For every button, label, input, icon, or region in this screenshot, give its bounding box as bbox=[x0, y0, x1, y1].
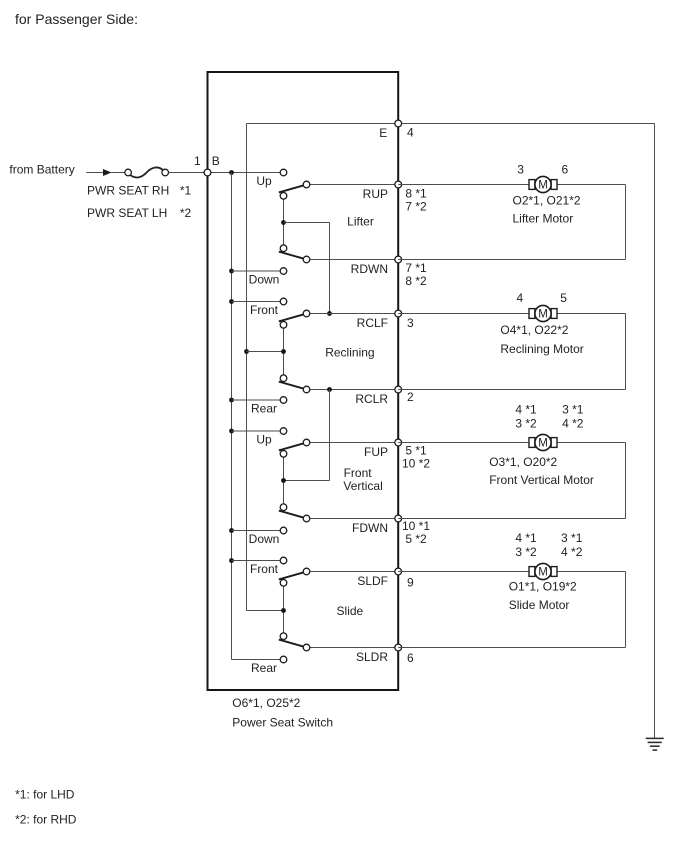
svg-text:for Passenger Side:: for Passenger Side: bbox=[15, 11, 138, 27]
label Reclining Motor bbox=[500, 342, 583, 356]
switch front-vertical lower wire FDWN bbox=[307, 518, 399, 520]
svg-text:4 *2: 4 *2 bbox=[561, 545, 583, 559]
svg-text:7 *1: 7 *1 bbox=[405, 261, 427, 275]
switch front-vertical arm down bbox=[279, 511, 304, 518]
svg-text:4: 4 bbox=[516, 291, 523, 305]
svg-text:Up: Up bbox=[256, 174, 272, 188]
svg-text:4 *1: 4 *1 bbox=[515, 531, 537, 545]
switch lifter arm down bbox=[279, 252, 304, 259]
label 1 (pin) bbox=[194, 154, 201, 168]
wire B bus to Down contact bbox=[232, 270, 284, 272]
svg-text:*2: *2 bbox=[180, 206, 192, 220]
label Slide Motor bbox=[509, 598, 570, 612]
svg-text:FDWN: FDWN bbox=[352, 521, 388, 535]
junction slide common bbox=[281, 608, 286, 613]
svg-text:RCLF: RCLF bbox=[357, 316, 388, 330]
label RUP bbox=[363, 187, 388, 201]
label RCLF bbox=[357, 316, 388, 330]
label from Battery bbox=[9, 162, 74, 176]
svg-text:M: M bbox=[538, 437, 548, 449]
label B (terminal) bbox=[212, 154, 220, 168]
wire E horizontal inside box bbox=[247, 123, 399, 125]
svg-text:Vertical: Vertical bbox=[343, 479, 382, 493]
terminal FDWN bbox=[395, 515, 402, 522]
svg-text:3 *1: 3 *1 bbox=[561, 531, 583, 545]
label Front contact bbox=[250, 562, 279, 576]
wire B bus to Down contact bbox=[232, 530, 284, 532]
wire B bus to Up contact bbox=[232, 430, 284, 432]
svg-text:Rear: Rear bbox=[251, 661, 277, 675]
switch slide common vertical bbox=[283, 583, 285, 636]
label Power Seat Switch bbox=[232, 715, 333, 729]
terminal E bbox=[395, 120, 402, 127]
svg-text:8 *2: 8 *2 bbox=[405, 274, 427, 288]
wire B bus vertical bbox=[231, 173, 233, 660]
svg-text:FUP: FUP bbox=[364, 445, 388, 459]
title for Passenger Side bbox=[15, 11, 138, 27]
svg-text:Down: Down bbox=[249, 532, 280, 546]
junction front-vertical common bbox=[281, 478, 286, 483]
svg-text:Reclining Motor: Reclining Motor bbox=[500, 342, 583, 356]
svg-text:Front: Front bbox=[250, 303, 279, 317]
wire B bus to Front contact bbox=[232, 560, 284, 562]
svg-text:3 *1: 3 *1 bbox=[562, 402, 584, 416]
svg-text:Power Seat Switch: Power Seat Switch bbox=[232, 715, 333, 729]
terminal RCLF bbox=[395, 310, 402, 317]
svg-text:Lifter Motor: Lifter Motor bbox=[513, 212, 574, 226]
wire RCLR to front vertical common bbox=[284, 390, 330, 481]
terminal B bbox=[204, 169, 211, 176]
wire B bus to Front contact bbox=[232, 301, 284, 303]
switch front-vertical arm up bbox=[279, 443, 304, 450]
label FDWN bbox=[352, 521, 388, 535]
switch slide arm rear bbox=[279, 640, 304, 647]
svg-text:10 *1: 10 *1 bbox=[402, 519, 430, 533]
svg-text:*1: for LHD: *1: for LHD bbox=[15, 787, 75, 801]
svg-text:8 *1: 8 *1 bbox=[405, 186, 427, 200]
label E (terminal) bbox=[379, 126, 387, 140]
label SLDR bbox=[356, 650, 388, 664]
pin label 4*2 (slide motor) bbox=[561, 545, 583, 559]
svg-text:4 *2: 4 *2 bbox=[562, 416, 584, 430]
switch lifter upper wire RUP bbox=[307, 184, 399, 186]
label O2*1, O21*2 bbox=[513, 194, 581, 208]
label Front Vertical Motor bbox=[489, 473, 594, 487]
pin label 3 (lifter motor) bbox=[517, 163, 524, 177]
svg-text:O3*1, O20*2: O3*1, O20*2 bbox=[489, 455, 557, 469]
pin label 4*2 (fv motor) bbox=[562, 416, 584, 430]
terminal SLDF bbox=[395, 568, 402, 575]
svg-text:M: M bbox=[538, 179, 548, 191]
svg-text:*2: for RHD: *2: for RHD bbox=[15, 812, 77, 826]
motor M4 slide loop and symbol bbox=[398, 563, 625, 647]
pin label 4 (reclining motor) bbox=[516, 291, 523, 305]
svg-text:10 *2: 10 *2 bbox=[402, 457, 430, 471]
svg-text:Reclining: Reclining bbox=[325, 345, 374, 359]
pin label 4*1 (slide motor) bbox=[515, 531, 537, 545]
footnote *2 for RHD bbox=[15, 812, 77, 826]
label Front contact bbox=[250, 303, 279, 317]
switch lifter common vertical bbox=[283, 196, 285, 248]
svg-text:3 *2: 3 *2 bbox=[515, 416, 537, 430]
label PWR SEAT LH *2 bbox=[87, 206, 192, 220]
motor M3 front vertical loop and symbol bbox=[398, 434, 625, 518]
ground symbol bbox=[646, 738, 664, 750]
svg-text:M: M bbox=[538, 308, 548, 320]
switch pivot contacts on motor wires bbox=[303, 181, 310, 651]
label Down contact bbox=[249, 272, 280, 286]
svg-text:M: M bbox=[538, 566, 548, 578]
junction B bus feed Front bbox=[229, 299, 234, 304]
junction B bus feed Front bbox=[229, 558, 234, 563]
switch arm throw contacts bbox=[280, 193, 287, 640]
svg-text:3: 3 bbox=[407, 316, 414, 330]
junction lifter common bbox=[281, 220, 286, 225]
svg-text:RUP: RUP bbox=[363, 187, 388, 201]
pin label 3*2 (fv motor) bbox=[515, 416, 537, 430]
svg-text:6: 6 bbox=[407, 651, 414, 665]
switch reclining lower wire RCLR bbox=[307, 389, 399, 391]
svg-text:from Battery: from Battery bbox=[9, 162, 74, 176]
svg-text:O4*1, O22*2: O4*1, O22*2 bbox=[500, 323, 568, 337]
terminal SLDR bbox=[395, 644, 402, 651]
wire fuse to terminal B bbox=[169, 172, 208, 174]
svg-text:O6*1, O25*2: O6*1, O25*2 bbox=[232, 696, 300, 710]
label Front Vertical bbox=[343, 466, 382, 493]
label O3*1, O20*2 bbox=[489, 455, 557, 469]
switch slide upper wire SLDF bbox=[307, 571, 399, 573]
footnote *1 for LHD bbox=[15, 787, 75, 801]
junction B bus feed Up bbox=[229, 429, 234, 434]
label Up contact bbox=[256, 174, 272, 188]
wire E outside box to ground bbox=[398, 124, 654, 739]
wire B bus to Rear contact (bottom) bbox=[232, 659, 284, 661]
junction reclining common bbox=[281, 349, 286, 354]
label 4 (pin) bbox=[407, 125, 414, 139]
junction B bus feed Rear bbox=[229, 398, 234, 403]
pin label FDWN 10*1/5*2 bbox=[402, 519, 430, 546]
svg-text:2: 2 bbox=[407, 390, 414, 404]
junction chain on RCLF bbox=[327, 311, 332, 316]
wire from battery with arrow bbox=[86, 169, 125, 176]
label PWR SEAT RH *1 bbox=[87, 184, 192, 198]
junction chain on RCLR bbox=[327, 387, 332, 392]
wire E to slide common bbox=[247, 610, 284, 612]
svg-text:RDWN: RDWN bbox=[351, 262, 388, 276]
label Rear contact bbox=[251, 401, 277, 415]
label RCLR bbox=[355, 392, 388, 406]
switch slide lower wire SLDR bbox=[307, 647, 399, 649]
label O1*1, O19*2 bbox=[509, 580, 577, 594]
svg-text:9: 9 bbox=[407, 575, 414, 589]
svg-text:Up: Up bbox=[256, 432, 272, 446]
svg-text:PWR SEAT LH: PWR SEAT LH bbox=[87, 206, 167, 220]
svg-text:PWR SEAT RH: PWR SEAT RH bbox=[87, 184, 169, 198]
pin label 3*2 (slide motor) bbox=[515, 545, 537, 559]
svg-text:5 *2: 5 *2 bbox=[405, 532, 427, 546]
pin label RUP 8*1/7*2 bbox=[405, 186, 427, 213]
switch reclining arm rear bbox=[279, 382, 304, 389]
svg-text:6: 6 bbox=[562, 163, 569, 177]
switch reclining arm front bbox=[279, 314, 304, 321]
label Rear contact bbox=[251, 661, 277, 675]
switch fixed contacts (Up/Down/Front/Rear) bbox=[280, 169, 287, 663]
power seat switch box outline bbox=[208, 72, 399, 690]
pin label 5 (reclining motor) bbox=[560, 291, 567, 305]
motor M2 reclining loop and symbol bbox=[398, 305, 625, 389]
switch front-vertical common vertical bbox=[283, 454, 285, 507]
switch reclining upper wire RCLF bbox=[307, 313, 399, 315]
svg-text:Front: Front bbox=[250, 562, 279, 576]
label Up contact bbox=[256, 432, 272, 446]
pin label SLDR 6 bbox=[407, 651, 414, 665]
svg-text:3: 3 bbox=[517, 163, 524, 177]
label Lifter bbox=[347, 215, 374, 229]
switch front-vertical upper wire FUP bbox=[307, 442, 399, 444]
junction B bus feed Down bbox=[229, 269, 234, 274]
fuse PWR SEAT (circuit opening symbol) bbox=[125, 167, 169, 177]
pin label 3*1 (fv motor) bbox=[562, 402, 584, 416]
terminal RDWN bbox=[395, 256, 402, 263]
svg-text:3 *2: 3 *2 bbox=[515, 545, 537, 559]
svg-text:O1*1, O19*2: O1*1, O19*2 bbox=[509, 580, 577, 594]
svg-text:O2*1, O21*2: O2*1, O21*2 bbox=[513, 194, 581, 208]
switch lifter arm up (movable contact) bbox=[279, 185, 304, 192]
pin label RCLF 3 bbox=[407, 316, 414, 330]
label Lifter Motor bbox=[513, 212, 574, 226]
label O4*1, O22*2 bbox=[500, 323, 568, 337]
terminal RCLR bbox=[395, 386, 402, 393]
svg-text:SLDR: SLDR bbox=[356, 650, 388, 664]
pin label RCLR 2 bbox=[407, 390, 414, 404]
label SLDF bbox=[357, 574, 388, 588]
wire E vertical inside box bbox=[246, 124, 248, 611]
svg-text:Slide: Slide bbox=[337, 604, 364, 618]
junction E line to reclining common bbox=[244, 349, 249, 354]
svg-text:Rear: Rear bbox=[251, 401, 277, 415]
label RDWN bbox=[351, 262, 388, 276]
junction on B bus at Up bbox=[229, 170, 234, 175]
pin label 3*1 (slide motor) bbox=[561, 531, 583, 545]
terminal RUP bbox=[395, 181, 402, 188]
wire B to Up contact bbox=[208, 172, 284, 174]
svg-text:E: E bbox=[379, 126, 387, 140]
pin label 4*1 (fv motor) bbox=[515, 402, 537, 416]
svg-text:4 *1: 4 *1 bbox=[515, 402, 537, 416]
svg-text:7 *2: 7 *2 bbox=[405, 199, 427, 213]
terminal FUP bbox=[395, 439, 402, 446]
svg-text:Slide Motor: Slide Motor bbox=[509, 598, 570, 612]
label Down contact bbox=[249, 532, 280, 546]
svg-text:1: 1 bbox=[194, 154, 201, 168]
wire lifter common to RCLF bbox=[284, 223, 330, 314]
pin label RDWN 7*1/8*2 bbox=[405, 261, 427, 288]
pin label 6 (lifter motor) bbox=[562, 163, 569, 177]
pin label FUP 5*1/10*2 bbox=[402, 444, 430, 471]
label FUP bbox=[364, 445, 388, 459]
svg-text:Lifter: Lifter bbox=[347, 215, 374, 229]
label Slide bbox=[337, 604, 364, 618]
label O6*1, O25*2 bbox=[232, 696, 300, 710]
svg-text:SLDF: SLDF bbox=[357, 574, 388, 588]
wire E to reclining common bbox=[247, 351, 284, 353]
svg-text:Down: Down bbox=[249, 272, 280, 286]
svg-text:RCLR: RCLR bbox=[355, 392, 388, 406]
motor M1 lifter loop and symbol bbox=[398, 176, 625, 259]
svg-text:B: B bbox=[212, 154, 220, 168]
svg-text:4: 4 bbox=[407, 125, 414, 139]
wire B bus to Rear contact bbox=[232, 399, 284, 401]
switch slide arm front bbox=[279, 572, 304, 579]
label Reclining bbox=[325, 345, 374, 359]
switch reclining common vertical bbox=[283, 325, 285, 378]
svg-text:Front Vertical Motor: Front Vertical Motor bbox=[489, 473, 594, 487]
svg-text:*1: *1 bbox=[180, 184, 192, 198]
junction B bus feed Down bbox=[229, 528, 234, 533]
svg-text:5 *1: 5 *1 bbox=[405, 444, 427, 458]
pin label SLDF 9 bbox=[407, 575, 414, 589]
switch lifter lower wire RDWN bbox=[307, 259, 399, 261]
svg-text:5: 5 bbox=[560, 291, 567, 305]
